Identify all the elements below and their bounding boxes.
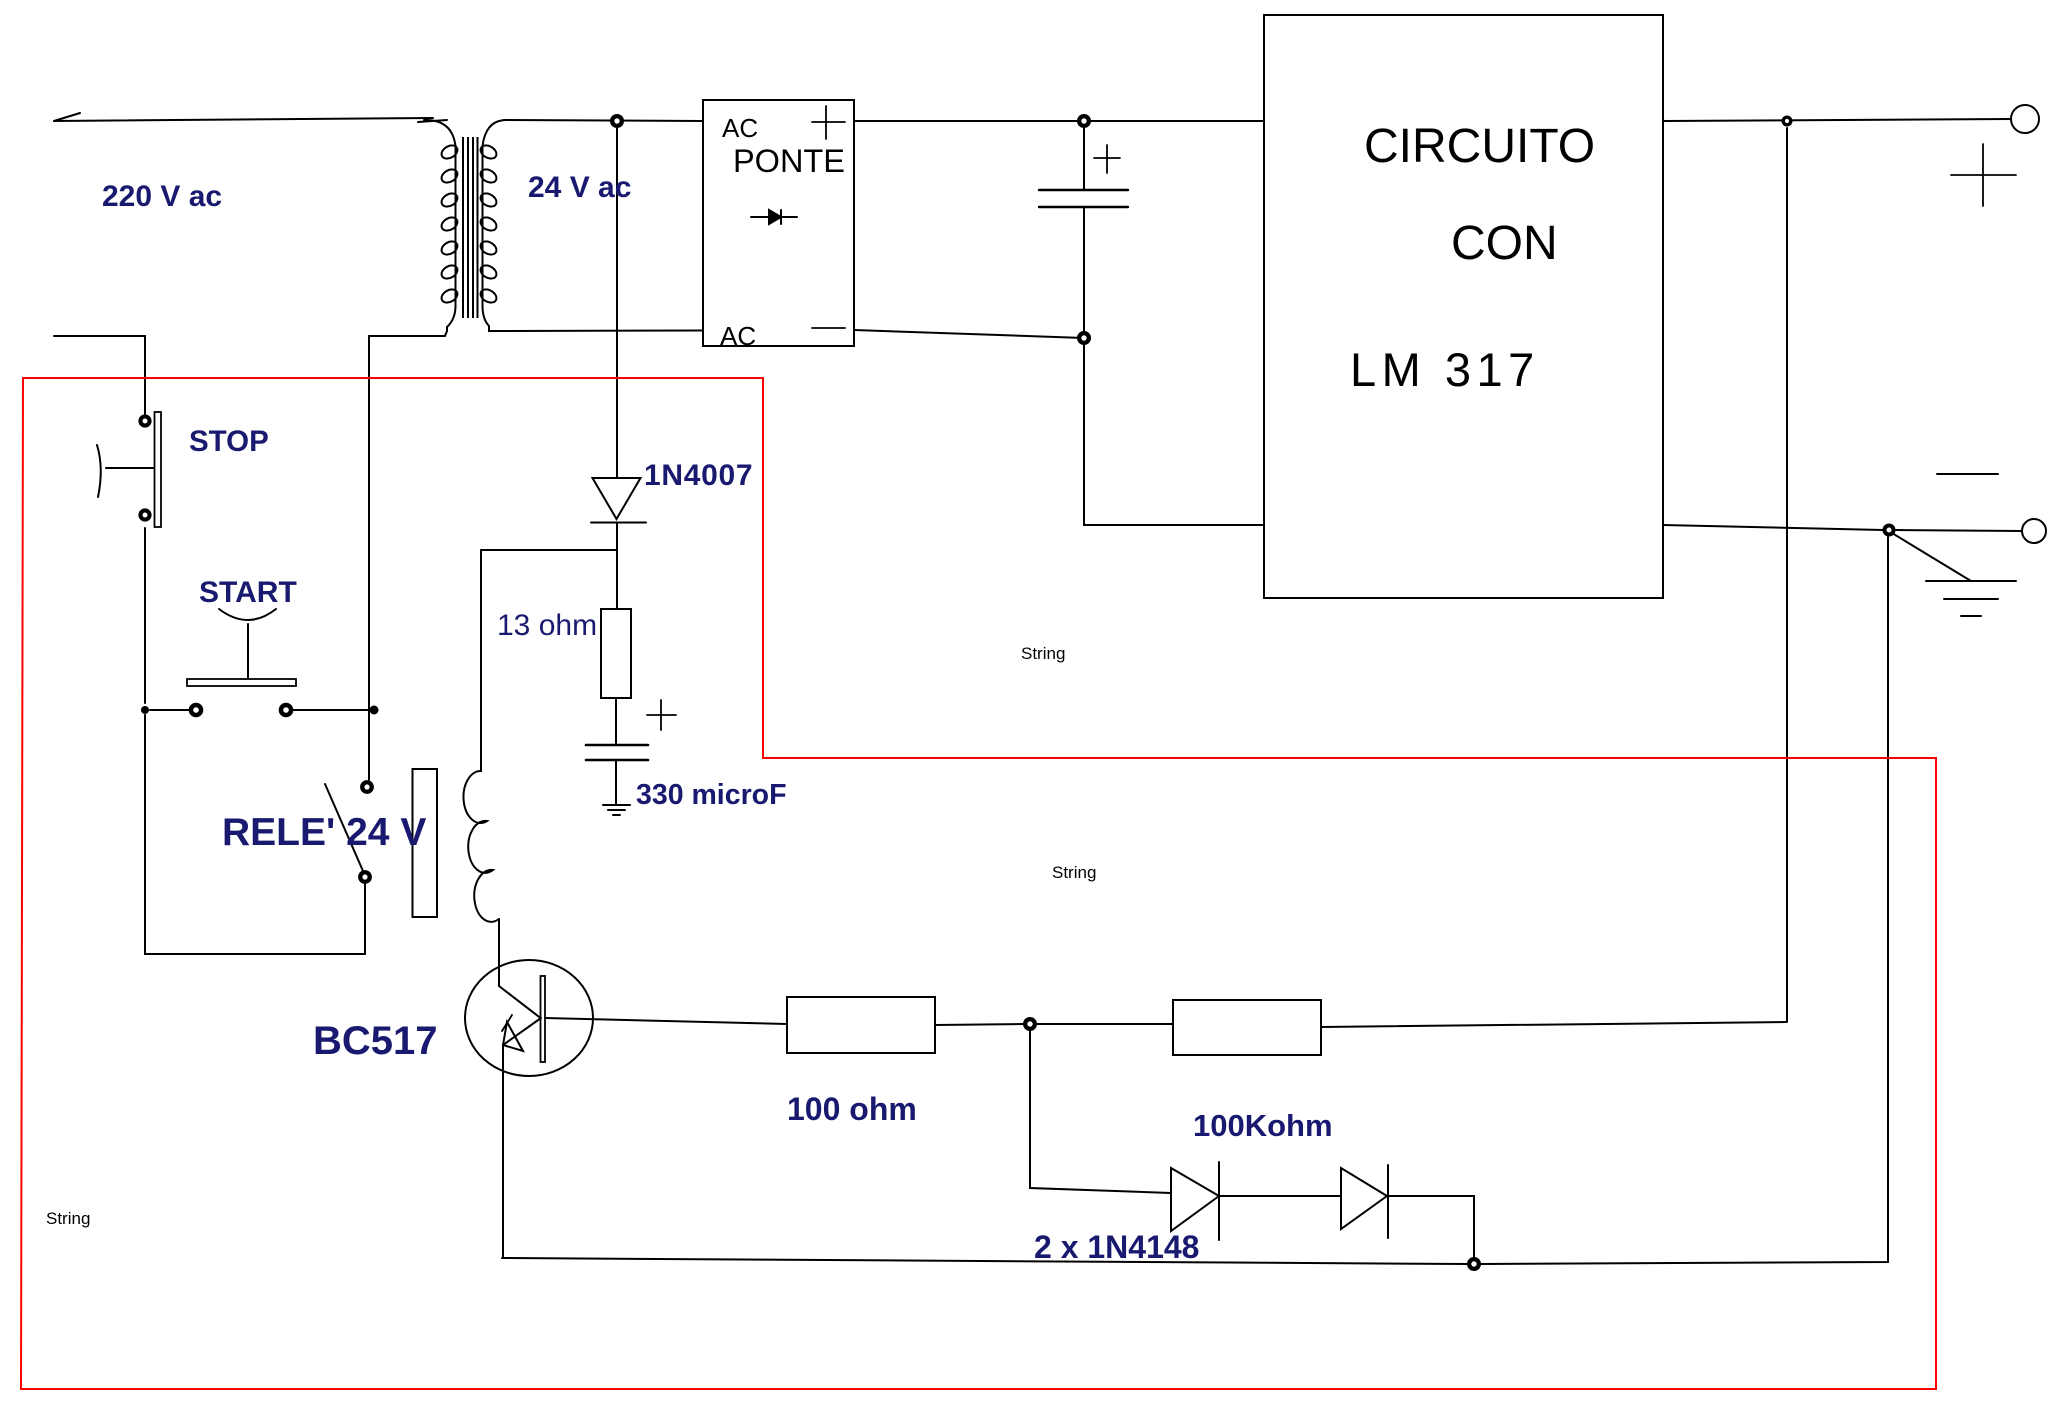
svg-text:100 ohm: 100 ohm [787,1091,917,1127]
svg-text:RELE' 24 V: RELE' 24 V [222,811,426,854]
svg-text:String: String [46,1209,90,1228]
svg-text:220 V ac: 220 V ac [102,180,222,213]
svg-text:100Kohm: 100Kohm [1193,1108,1333,1143]
svg-text:LM 317: LM 317 [1350,343,1540,396]
svg-text:1N4007: 1N4007 [644,459,753,492]
svg-text:AC: AC [720,321,756,351]
svg-text:2 x 1N4148: 2 x 1N4148 [1034,1229,1199,1265]
svg-text:13 ohm: 13 ohm [497,609,597,642]
svg-text:PONTE: PONTE [733,143,845,179]
svg-text:START: START [199,576,297,609]
svg-text:330 microF: 330 microF [636,779,787,811]
svg-text:AC: AC [722,113,758,143]
svg-text:String: String [1021,644,1065,663]
svg-text:String: String [1052,863,1096,882]
svg-text:CIRCUITO: CIRCUITO [1364,120,1595,173]
svg-text:BC517: BC517 [313,1019,438,1063]
svg-text:CON: CON [1451,217,1558,270]
svg-text:STOP: STOP [189,425,269,458]
svg-text:24 V ac: 24 V ac [528,171,631,204]
